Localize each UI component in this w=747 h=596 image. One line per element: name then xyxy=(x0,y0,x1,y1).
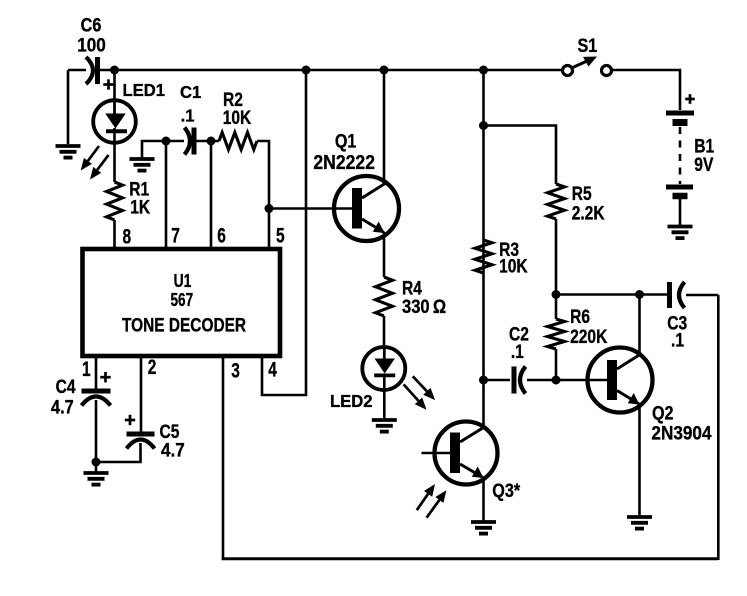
svg-text:1K: 1K xyxy=(130,196,150,218)
wire R5 to R6 node xyxy=(555,219,558,295)
svg-text:C1: C1 xyxy=(180,83,201,102)
svg-text:S1: S1 xyxy=(578,35,598,57)
wire S1 to battery corner xyxy=(612,70,680,110)
wire Q3 emitter to ground xyxy=(482,478,485,522)
wire LED1 anode from rail xyxy=(113,70,116,101)
wire pin1 to C4 xyxy=(95,356,98,389)
wire R1 to pin 8 xyxy=(113,220,116,250)
wire R4 to LED2 xyxy=(383,316,386,349)
svg-text:LED1: LED1 xyxy=(123,81,165,100)
wire branch to R5 xyxy=(484,126,557,185)
resistor R6 xyxy=(548,319,565,349)
svg-text:4: 4 xyxy=(268,357,277,381)
svg-text:2N3904: 2N3904 xyxy=(651,421,712,443)
node junction pin5 to Q1 base xyxy=(265,204,274,213)
wire C1 to pin6 node xyxy=(197,140,220,143)
light ray arrow 2 of LED2 xyxy=(404,384,427,409)
node junction C2 R6 Q2 base xyxy=(552,376,561,385)
wire battery to ground xyxy=(679,198,682,226)
svg-text:C4: C4 xyxy=(56,376,76,398)
wire pin7 vertical xyxy=(165,141,168,250)
wire C2 right to Q2 base xyxy=(527,379,607,382)
LED LED1 xyxy=(93,100,136,143)
svg-text:.1: .1 xyxy=(181,106,195,125)
svg-text:220K: 220K xyxy=(570,326,608,348)
ground below C4 C5 xyxy=(84,473,109,485)
transistor Q3 phototransistor xyxy=(435,422,498,485)
node junction pin7 left of C1 xyxy=(162,137,171,146)
svg-text:R6: R6 xyxy=(570,305,590,327)
plus sign of C4 xyxy=(100,372,110,382)
wire LED1 cathode to R1 xyxy=(113,128,116,182)
wire bottom rail xyxy=(222,557,719,560)
wire C5 down and left to junction xyxy=(96,443,141,462)
wire pin2 to C5 xyxy=(140,356,143,432)
wire Q2 emitter to ground xyxy=(638,404,641,516)
switch S1 xyxy=(563,57,612,76)
light ray arrow 1 of LED1 xyxy=(81,146,99,171)
wire Q1 collector to top rail xyxy=(383,70,386,184)
svg-text:2: 2 xyxy=(148,354,157,378)
LED LED2 xyxy=(362,347,405,390)
svg-text:2N2222: 2N2222 xyxy=(313,151,375,173)
svg-text:R5: R5 xyxy=(572,182,592,204)
svg-text:.1: .1 xyxy=(511,341,524,363)
wire pin 4 down right and up to top rail xyxy=(262,70,306,395)
svg-text:330 Ω: 330 Ω xyxy=(402,296,446,317)
plus sign of B1 xyxy=(685,94,695,104)
capacitor C6 xyxy=(86,57,98,84)
svg-text:Q1: Q1 xyxy=(335,130,357,152)
wire R2 to pin5 corner xyxy=(257,141,269,250)
resistor R2 xyxy=(219,133,257,150)
wire C2 left xyxy=(484,379,511,382)
capacitor C3 xyxy=(670,282,685,308)
resistor R4 xyxy=(376,277,393,316)
light ray arrow 1 of LED2 xyxy=(413,376,435,400)
node junction Q1 collector on top rail xyxy=(380,66,389,75)
wire pin7 node to C1 xyxy=(166,140,184,143)
wire R3 column vertical xyxy=(482,70,485,427)
node junction C2 branch xyxy=(479,376,488,385)
wire pin 3 vertical to bottom rail xyxy=(222,356,225,559)
battery B1 xyxy=(666,113,694,196)
node junction R5 R6 C3 xyxy=(552,290,561,299)
svg-text:LED2: LED2 xyxy=(330,392,372,411)
light ray arrow 2 of Q3 xyxy=(427,490,447,518)
wire LED2 cathode to ground xyxy=(383,376,386,419)
svg-text:U1: U1 xyxy=(174,271,192,291)
svg-text:2.2K: 2.2K xyxy=(572,202,605,224)
ground below C6 left xyxy=(56,146,81,158)
node junction pin4 riser on top rail xyxy=(302,66,311,75)
svg-text:TONE DECODER: TONE DECODER xyxy=(122,314,246,336)
op-amp U1 567 tone decoder box xyxy=(83,249,281,356)
light ray arrow 1 of Q3 xyxy=(417,484,435,510)
wire pin5 node to Q1 base xyxy=(269,207,352,210)
svg-text:10K: 10K xyxy=(499,255,528,277)
ground below battery B1 xyxy=(668,227,693,239)
svg-text:10K: 10K xyxy=(223,107,252,129)
node V+ junction at LED1 branch xyxy=(110,66,119,75)
plus sign of C5 xyxy=(125,415,135,425)
svg-text:4.7: 4.7 xyxy=(161,440,185,461)
resistor R1 xyxy=(107,182,123,220)
svg-text:6: 6 xyxy=(217,223,226,247)
svg-text:100: 100 xyxy=(77,35,106,56)
svg-text:567: 567 xyxy=(171,290,194,310)
transistor Q1 2N2222 xyxy=(334,176,399,241)
svg-text:7: 7 xyxy=(171,223,180,247)
svg-text:3: 3 xyxy=(231,358,240,382)
wire R6 node to C3 xyxy=(556,293,667,296)
svg-text:1: 1 xyxy=(82,356,91,380)
wire right vertical rail xyxy=(717,295,720,560)
svg-text:C6: C6 xyxy=(81,14,102,36)
svg-text:4.7: 4.7 xyxy=(51,396,74,417)
ground below Q2 xyxy=(627,517,652,529)
wire ground stub to pin7 node xyxy=(142,141,166,158)
node junction R3 top branch xyxy=(479,121,488,130)
transistor Q2 2N3904 xyxy=(588,348,653,413)
wire C4 to ground junction xyxy=(95,400,98,473)
svg-text:8: 8 xyxy=(122,224,131,248)
resistor R5 xyxy=(548,184,565,219)
wire Q2 collector up xyxy=(638,295,641,356)
wire top rail C6 to S1 xyxy=(100,69,562,72)
wire top rail left stub to C6 xyxy=(68,69,86,72)
wire left drop to ground xyxy=(67,70,70,144)
capacitor C1 xyxy=(185,128,195,155)
capacitor C5 xyxy=(127,434,155,449)
node junction C4 C5 ground xyxy=(92,458,101,467)
wire R6 bottom xyxy=(555,349,558,380)
capacitor C2 xyxy=(514,367,526,394)
svg-text:9V: 9V xyxy=(694,154,713,176)
node junction pin6 right of C1 xyxy=(207,137,216,146)
wire C3 to right rail xyxy=(686,294,718,297)
wire Q1 emitter to R4 xyxy=(383,232,386,277)
wire pin6 vertical xyxy=(210,141,213,250)
ground below Q3 xyxy=(471,522,496,534)
resistor R3 xyxy=(475,240,492,273)
plus sign of C6 xyxy=(103,79,113,89)
node junction Q2 collector on C3 rail xyxy=(635,290,644,299)
light ray arrow 2 of LED1 xyxy=(90,155,109,180)
node junction R3 branch on top rail xyxy=(479,66,488,75)
capacitor C4 xyxy=(82,391,111,406)
svg-text:5: 5 xyxy=(276,223,285,247)
ground below LED2 xyxy=(372,420,397,432)
wire Q3 base stub xyxy=(422,452,451,455)
svg-text:Q3*: Q3* xyxy=(492,480,520,502)
ground at pin 7 branch xyxy=(130,159,155,171)
wire R6 top xyxy=(555,295,558,320)
svg-text:.1: .1 xyxy=(671,329,684,351)
